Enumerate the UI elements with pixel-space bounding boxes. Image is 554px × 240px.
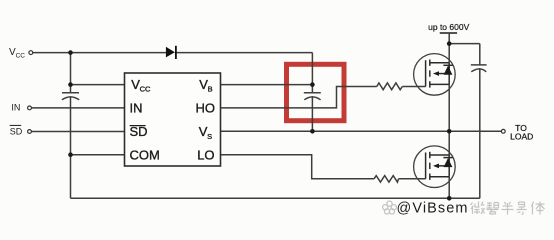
svg-text:CC: CC: [140, 85, 151, 94]
svg-text:up to 600V: up to 600V: [428, 22, 469, 32]
svg-text:S: S: [207, 132, 212, 141]
svg-text:LOAD: LOAD: [510, 132, 533, 142]
svg-text:IN: IN: [130, 100, 143, 115]
svg-text:@ViBsem: @ViBsem: [397, 201, 469, 217]
svg-text:LO: LO: [197, 147, 214, 162]
svg-text:COM: COM: [130, 147, 160, 162]
svg-text:IN: IN: [11, 103, 20, 113]
svg-text:SD: SD: [10, 126, 23, 136]
svg-text:SD: SD: [130, 124, 148, 139]
svg-text:B: B: [208, 85, 213, 94]
svg-text:CC: CC: [16, 53, 26, 60]
svg-text:HO: HO: [196, 100, 216, 115]
